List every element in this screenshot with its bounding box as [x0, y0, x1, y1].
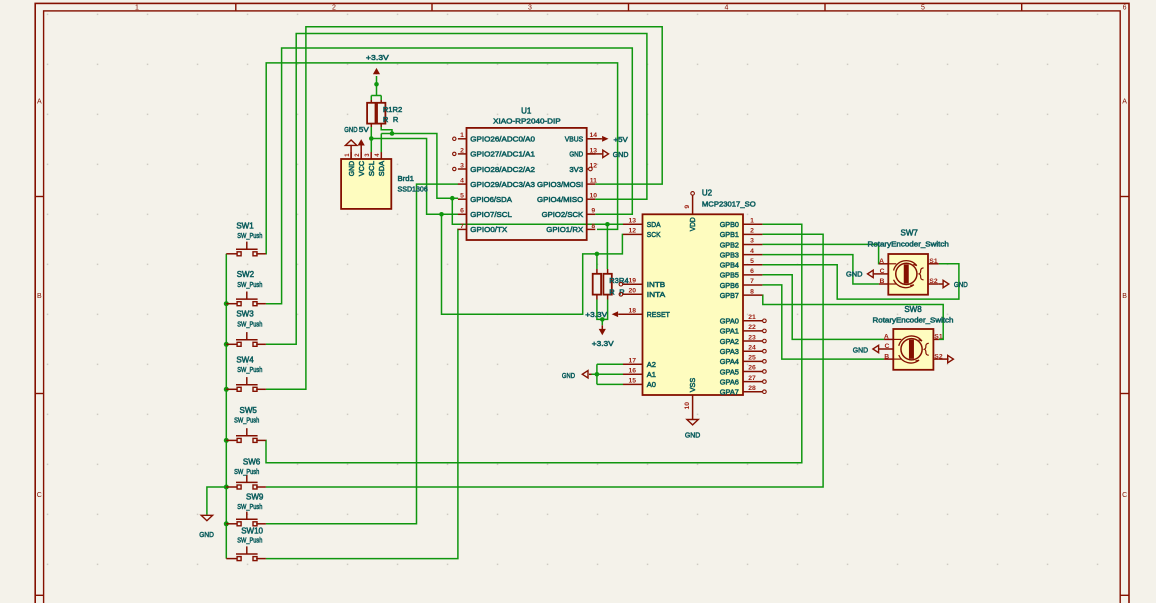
U2 pin 9 VDD [692, 195, 694, 214]
svg-text:GPB5: GPB5 [720, 271, 739, 280]
svg-text:GND: GND [344, 125, 358, 134]
svg-text:R: R [393, 115, 399, 124]
U2 pin 22 GPA1 [743, 330, 762, 332]
wire switch common bus (left column) [225, 254, 227, 559]
wire SW3 to U1 GPIO4/MISO [266, 34, 647, 345]
resistor R1 [367, 103, 375, 124]
svg-text:R1: R1 [383, 105, 393, 114]
svg-text:SW4: SW4 [236, 355, 254, 364]
U2 pin 15 A0 [623, 383, 643, 385]
svg-text:A2: A2 [647, 360, 656, 369]
svg-text:SW7: SW7 [901, 229, 919, 238]
power GND above OLED [350, 145, 352, 159]
svg-text:SCL: SCL [369, 161, 376, 176]
svg-text:GPB6: GPB6 [720, 281, 739, 290]
svg-text:GND: GND [954, 280, 968, 289]
svg-text:C: C [37, 492, 42, 499]
svg-text:SCK: SCK [647, 230, 661, 239]
svg-text:4: 4 [750, 248, 754, 255]
wire R3 R4 bottoms to +3.3V [597, 300, 608, 326]
svg-text:GPA5: GPA5 [720, 367, 739, 376]
U1 pin 11 GPIO3/MOSI [587, 183, 596, 185]
svg-text:SW_Push: SW_Push [234, 415, 259, 424]
svg-text:GPB1: GPB1 [720, 230, 739, 239]
svg-text:A0: A0 [647, 380, 656, 389]
junction SCK at R3 [595, 252, 600, 257]
U2 pin 27 GPA6 [743, 381, 762, 383]
wire U2 GPB4 to SW7 S1 [762, 264, 959, 299]
svg-text:B: B [37, 293, 42, 300]
svg-text:15: 15 [629, 378, 637, 385]
svg-text:GND: GND [853, 345, 869, 354]
svg-text:B: B [884, 353, 889, 360]
svg-text:GPB3: GPB3 [720, 250, 739, 259]
junction SDA at U1 pin5 [450, 196, 455, 201]
svg-text:24: 24 [748, 344, 756, 351]
svg-text:13: 13 [629, 218, 637, 225]
svg-text:VDD: VDD [688, 217, 697, 232]
push button SW9 [226, 523, 237, 525]
svg-text:SW1: SW1 [236, 222, 254, 231]
push button SW2 [226, 303, 237, 305]
U1 pin 1 GPIO26/ADC0/A0 [458, 138, 467, 140]
svg-text:S2: S2 [929, 278, 938, 285]
svg-text:GND: GND [562, 371, 576, 380]
junction SDA at R4 [605, 222, 610, 227]
power GND at SW7 pin C [868, 270, 874, 277]
rotary encoder SW8 [893, 329, 933, 370]
power +3.3V at U2 RESET [618, 313, 642, 315]
svg-text:SSD1306: SSD1306 [398, 184, 428, 193]
wire U2 A2 A1 A0 to GND [591, 364, 623, 384]
U2 pin 23 GPA2 [743, 340, 762, 342]
power +3.3V below R3 R4 [601, 329, 603, 333]
svg-text:1: 1 [750, 217, 754, 224]
svg-text:6: 6 [750, 268, 754, 275]
svg-text:MCP23017_SO: MCP23017_SO [702, 200, 756, 209]
svg-text:GND: GND [613, 150, 629, 159]
svg-text:GPA3: GPA3 [720, 347, 739, 356]
svg-text:R: R [609, 288, 615, 297]
wire U2 GPB5 to SW8 A [762, 275, 884, 340]
U2 pin 3 GPB2 [743, 243, 762, 245]
wire SCL branch to U2 SCK [442, 214, 624, 314]
U1 pin 3 GPIO28/ADC2/A2 [458, 168, 467, 170]
svg-text:3: 3 [750, 238, 754, 245]
svg-text:6: 6 [460, 208, 464, 215]
svg-text:19: 19 [629, 277, 637, 284]
svg-text:SW_Push: SW_Push [237, 280, 262, 289]
U2 pin 2 GPB1 [743, 233, 762, 235]
svg-text:6: 6 [1123, 5, 1127, 12]
U1 pin 10 GPIO4/MISO [587, 198, 596, 200]
U2 pin 12 SCK [623, 233, 643, 235]
svg-text:2: 2 [460, 147, 464, 154]
resistor R2 [377, 103, 385, 124]
svg-text:SW_Push: SW_Push [237, 320, 262, 329]
svg-text:GND: GND [199, 530, 214, 539]
U1 pin 14 VBUS [587, 138, 596, 140]
U2 pin 13 SDA [623, 223, 643, 225]
svg-text:GPIO0/TX: GPIO0/TX [470, 225, 507, 234]
svg-text:GPIO2/SCK: GPIO2/SCK [542, 210, 584, 219]
junction A1 GND [595, 372, 600, 377]
U1 pin 8 GPIO1/RX [587, 228, 596, 230]
svg-text:+3.3V: +3.3V [366, 53, 389, 62]
svg-text:+3.3V: +3.3V [592, 339, 614, 348]
svg-text:GPIO1/RX: GPIO1/RX [546, 225, 583, 234]
U2 pin 26 GPA5 [743, 370, 762, 372]
junction +3.3V feed [374, 82, 379, 87]
power +5V above OLED [360, 145, 362, 159]
svg-text:VBUS: VBUS [565, 135, 583, 144]
svg-text:4: 4 [725, 5, 729, 12]
svg-text:3V3: 3V3 [569, 165, 583, 174]
wire SW6 to U2 GPB1 [266, 234, 823, 487]
svg-text:17: 17 [629, 357, 637, 364]
U1 pin 6 GPIO7/SCL [458, 213, 467, 215]
svg-text:SW_Push: SW_Push [237, 231, 262, 240]
U1 pin 13 GND [587, 153, 596, 155]
svg-text:SW2: SW2 [237, 270, 255, 279]
svg-text:14: 14 [590, 132, 598, 139]
U2 pin 25 GPA4 [743, 360, 762, 362]
svg-text:7: 7 [460, 223, 464, 230]
svg-text:9: 9 [591, 208, 595, 215]
wire SW2 to U1 GPIO2/SCK [266, 48, 632, 304]
svg-text:RESET: RESET [647, 310, 670, 319]
U2 pin 16 A1 [623, 373, 643, 375]
svg-text:23: 23 [748, 334, 756, 341]
U2 pin 20 INTA [623, 293, 643, 295]
svg-text:SDA: SDA [379, 161, 386, 177]
svg-text:GPIO28/ADC2/A2: GPIO28/ADC2/A2 [470, 165, 535, 174]
svg-text:SW5: SW5 [240, 406, 258, 415]
wire R4 top lead to SDA net [606, 224, 608, 269]
MCU U1 XIAO-RP2040-DIP [467, 128, 587, 240]
resistor R4 [603, 274, 611, 295]
svg-text:GPIO3/MOSI: GPIO3/MOSI [537, 180, 583, 189]
svg-text:S1: S1 [929, 258, 938, 265]
svg-text:INTB: INTB [647, 280, 665, 289]
U2 pin 4 GPB3 [743, 254, 762, 256]
svg-text:1: 1 [460, 132, 464, 139]
U1 pin 2 GPIO27/ADC1/A1 [458, 153, 467, 155]
svg-text:SW_Push: SW_Push [237, 536, 262, 545]
U1 pin 5 GPIO6/SDA [458, 198, 467, 200]
wire SDA net: R2 bottom / OLED SDA / U1 GPIO6/SDA [381, 127, 458, 198]
wire SW4 to U1 GPIO3/MOSI (outer loop) [266, 27, 662, 390]
svg-text:1: 1 [135, 5, 139, 12]
svg-text:10: 10 [684, 402, 691, 410]
svg-text:U1: U1 [521, 107, 532, 116]
svg-text:C: C [1122, 492, 1127, 499]
svg-text:3: 3 [460, 162, 464, 169]
OLED pin 1 GND [350, 152, 352, 159]
svg-text:GPIO29/ADC3/A3: GPIO29/ADC3/A3 [470, 180, 535, 189]
svg-text:GND: GND [569, 150, 583, 159]
U2 pin 24 GPA3 [743, 350, 762, 352]
svg-text:GPIO26/ADC0/A0: GPIO26/ADC0/A0 [470, 135, 535, 144]
svg-text:A: A [37, 99, 42, 106]
svg-text:GPA0: GPA0 [720, 317, 739, 326]
U2 pin 1 GPB0 [743, 223, 762, 225]
wire U2 GPB2 to SW7 A [762, 244, 879, 263]
svg-text:12: 12 [629, 228, 637, 235]
svg-text:8: 8 [750, 288, 754, 295]
svg-text:21: 21 [748, 314, 756, 321]
wire SDA branch to U2 SDA [452, 198, 623, 224]
svg-text:XIAO-RP2040-DIP: XIAO-RP2040-DIP [493, 116, 561, 125]
svg-text:GPA1: GPA1 [720, 327, 739, 336]
svg-text:SW3: SW3 [236, 310, 254, 319]
push button SW10 [226, 558, 237, 560]
power +3.3V top (feeds R1 R2) [376, 70, 378, 74]
svg-text:5: 5 [921, 5, 925, 12]
wire U2 GPB7 to SW8 S1 [762, 295, 943, 339]
svg-text:27: 27 [748, 375, 756, 382]
svg-text:GPB7: GPB7 [720, 291, 739, 300]
U1 pin 9 GPIO2/SCK [587, 213, 596, 215]
svg-text:+3.3V: +3.3V [585, 310, 607, 319]
svg-text:3: 3 [528, 5, 532, 12]
U2 pin 7 GPB6 [743, 284, 762, 286]
OLED pin 4 SDA [380, 152, 382, 159]
svg-text:GPA6: GPA6 [720, 377, 739, 386]
svg-text:A1: A1 [647, 370, 656, 379]
wire SW5 to U2 GPB0 [266, 224, 802, 463]
svg-text:GPA4: GPA4 [720, 357, 739, 366]
svg-text:GPB2: GPB2 [720, 240, 739, 249]
svg-text:GND: GND [846, 270, 863, 279]
svg-text:9: 9 [684, 205, 691, 209]
U1 pin 7 GPIO0/TX [458, 228, 467, 230]
svg-text:4: 4 [460, 178, 464, 185]
IO expander U2 MCP23017_SO [643, 214, 744, 395]
push button SW3 [226, 343, 237, 345]
svg-text:5V: 5V [359, 125, 369, 134]
OLED module Brd1 SSD1306 [341, 159, 391, 209]
svg-text:GPB4: GPB4 [720, 261, 739, 270]
svg-text:SW_Push: SW_Push [237, 502, 262, 511]
power +5V at U1 VBUS [587, 138, 602, 140]
svg-text:22: 22 [748, 324, 756, 331]
svg-text:8: 8 [591, 223, 595, 230]
svg-text:16: 16 [629, 368, 637, 375]
svg-text:26: 26 [748, 365, 756, 372]
push button SW1 [226, 253, 237, 255]
svg-text:28: 28 [748, 385, 756, 392]
svg-text:R4: R4 [619, 276, 629, 285]
svg-text:A: A [1122, 99, 1127, 106]
junction SDA at R2 drop [390, 131, 395, 136]
svg-text:20: 20 [629, 288, 637, 295]
svg-text:SW_Push: SW_Push [237, 365, 262, 374]
svg-text:+5V: +5V [614, 135, 628, 144]
junction +3.3V under R3 R4 [600, 317, 605, 322]
svg-text:RotaryEncoder_Switch: RotaryEncoder_Switch [868, 239, 949, 248]
svg-text:5: 5 [460, 193, 464, 200]
svg-text:SDA: SDA [647, 220, 661, 229]
power GND at U2 A pins [589, 373, 592, 375]
svg-text:Brd1: Brd1 [398, 174, 414, 183]
svg-text:RotaryEncoder_Switch: RotaryEncoder_Switch [873, 316, 954, 325]
svg-text:VSS: VSS [688, 378, 697, 393]
U2 pin 19 INTB [623, 283, 643, 285]
push button SW6 [226, 486, 237, 488]
svg-text:2: 2 [332, 5, 336, 12]
U2 pin 17 A2 [623, 363, 643, 365]
U2 pin 6 GPB5 [743, 274, 762, 276]
wire GND tap of switch bus [207, 487, 226, 515]
wire +3.3V to R1 R2 pullup tops [371, 76, 381, 100]
push button SW5 [226, 439, 237, 441]
svg-text:R: R [383, 115, 389, 124]
svg-text:GPB0: GPB0 [720, 220, 739, 229]
push button SW4 [226, 388, 237, 390]
svg-text:GPA7: GPA7 [720, 388, 739, 397]
svg-text:GPIO6/SDA: GPIO6/SDA [470, 195, 512, 204]
power GND at SW8 S2 [939, 358, 949, 360]
svg-text:2: 2 [750, 228, 754, 235]
svg-text:12: 12 [590, 162, 598, 169]
power GND at SW8 pin C [873, 345, 879, 352]
svg-text:B: B [1122, 293, 1127, 300]
wire U2 GPB3 to SW7 B [762, 255, 879, 284]
wire SW1 to U1 GPIO1/RX [266, 63, 618, 254]
OLED pin 2 VCC [360, 152, 362, 159]
power GND at switch bus [201, 515, 212, 520]
svg-text:GND: GND [685, 431, 701, 440]
svg-text:SW10: SW10 [241, 527, 263, 536]
svg-text:R3: R3 [609, 276, 619, 285]
svg-text:5: 5 [750, 258, 754, 265]
U2 pin 8 GPB7 [743, 294, 762, 296]
svg-text:S1: S1 [934, 334, 943, 341]
svg-text:SW9: SW9 [246, 493, 264, 502]
svg-text:GPIO7/SCL: GPIO7/SCL [470, 210, 512, 219]
svg-text:10: 10 [590, 193, 598, 200]
svg-text:GND: GND [349, 161, 356, 176]
svg-text:INTA: INTA [647, 290, 665, 299]
power GND at U1 pin13 [587, 153, 603, 155]
junction SCL at U1 pin6 [439, 212, 444, 217]
junctions on switch bus [224, 301, 229, 306]
svg-text:B: B [879, 278, 884, 285]
power GND at SW7 S2 [939, 283, 943, 285]
U2 pin 28 GPA7 [743, 391, 762, 393]
U2 pin 5 GPB4 [743, 264, 762, 266]
OLED pin 3 SCL [370, 152, 372, 159]
svg-text:18: 18 [629, 307, 637, 314]
svg-text:7: 7 [750, 278, 754, 285]
wire SW9 to U1 GPIO29/ADC3/A3 [266, 184, 458, 524]
svg-text:A: A [884, 334, 889, 341]
rotary encoder SW7 [888, 254, 928, 295]
wire U2 GPB6 to SW8 B [762, 285, 884, 359]
U1 pin 4 GPIO29/ADC3/A3 [458, 183, 467, 185]
svg-text:11: 11 [590, 178, 597, 185]
svg-text:U2: U2 [702, 189, 713, 198]
svg-text:SW8: SW8 [904, 305, 922, 314]
wire SW10 to U1 GPIO0/TX [266, 229, 458, 558]
svg-text:GPIO27/ADC1/A1: GPIO27/ADC1/A1 [470, 150, 535, 159]
U1 pin 12 3V3 [587, 168, 589, 170]
svg-text:VCC: VCC [359, 161, 366, 176]
svg-text:C: C [884, 343, 889, 350]
U2 pin 10 VSS [692, 395, 694, 419]
svg-text:GPA2: GPA2 [720, 337, 739, 346]
svg-text:A: A [879, 258, 884, 265]
wire R3 top lead to SCK net [596, 254, 598, 269]
U2 pin 21 GPA0 [743, 320, 762, 322]
svg-text:C: C [880, 268, 885, 275]
svg-text:25: 25 [748, 355, 756, 362]
junction SCL at R1 [369, 136, 374, 141]
power GND at U2 VSS [687, 420, 698, 425]
svg-text:SW_Push: SW_Push [234, 467, 259, 476]
wire SCL net: R1 bottom / OLED SCL / U1 GPIO7/SCL [371, 127, 458, 214]
svg-text:GPIO4/MISO: GPIO4/MISO [537, 195, 583, 204]
resistor R3 [593, 274, 601, 295]
svg-text:13: 13 [590, 147, 598, 154]
svg-text:SW6: SW6 [243, 458, 261, 467]
svg-text:R2: R2 [393, 105, 403, 114]
